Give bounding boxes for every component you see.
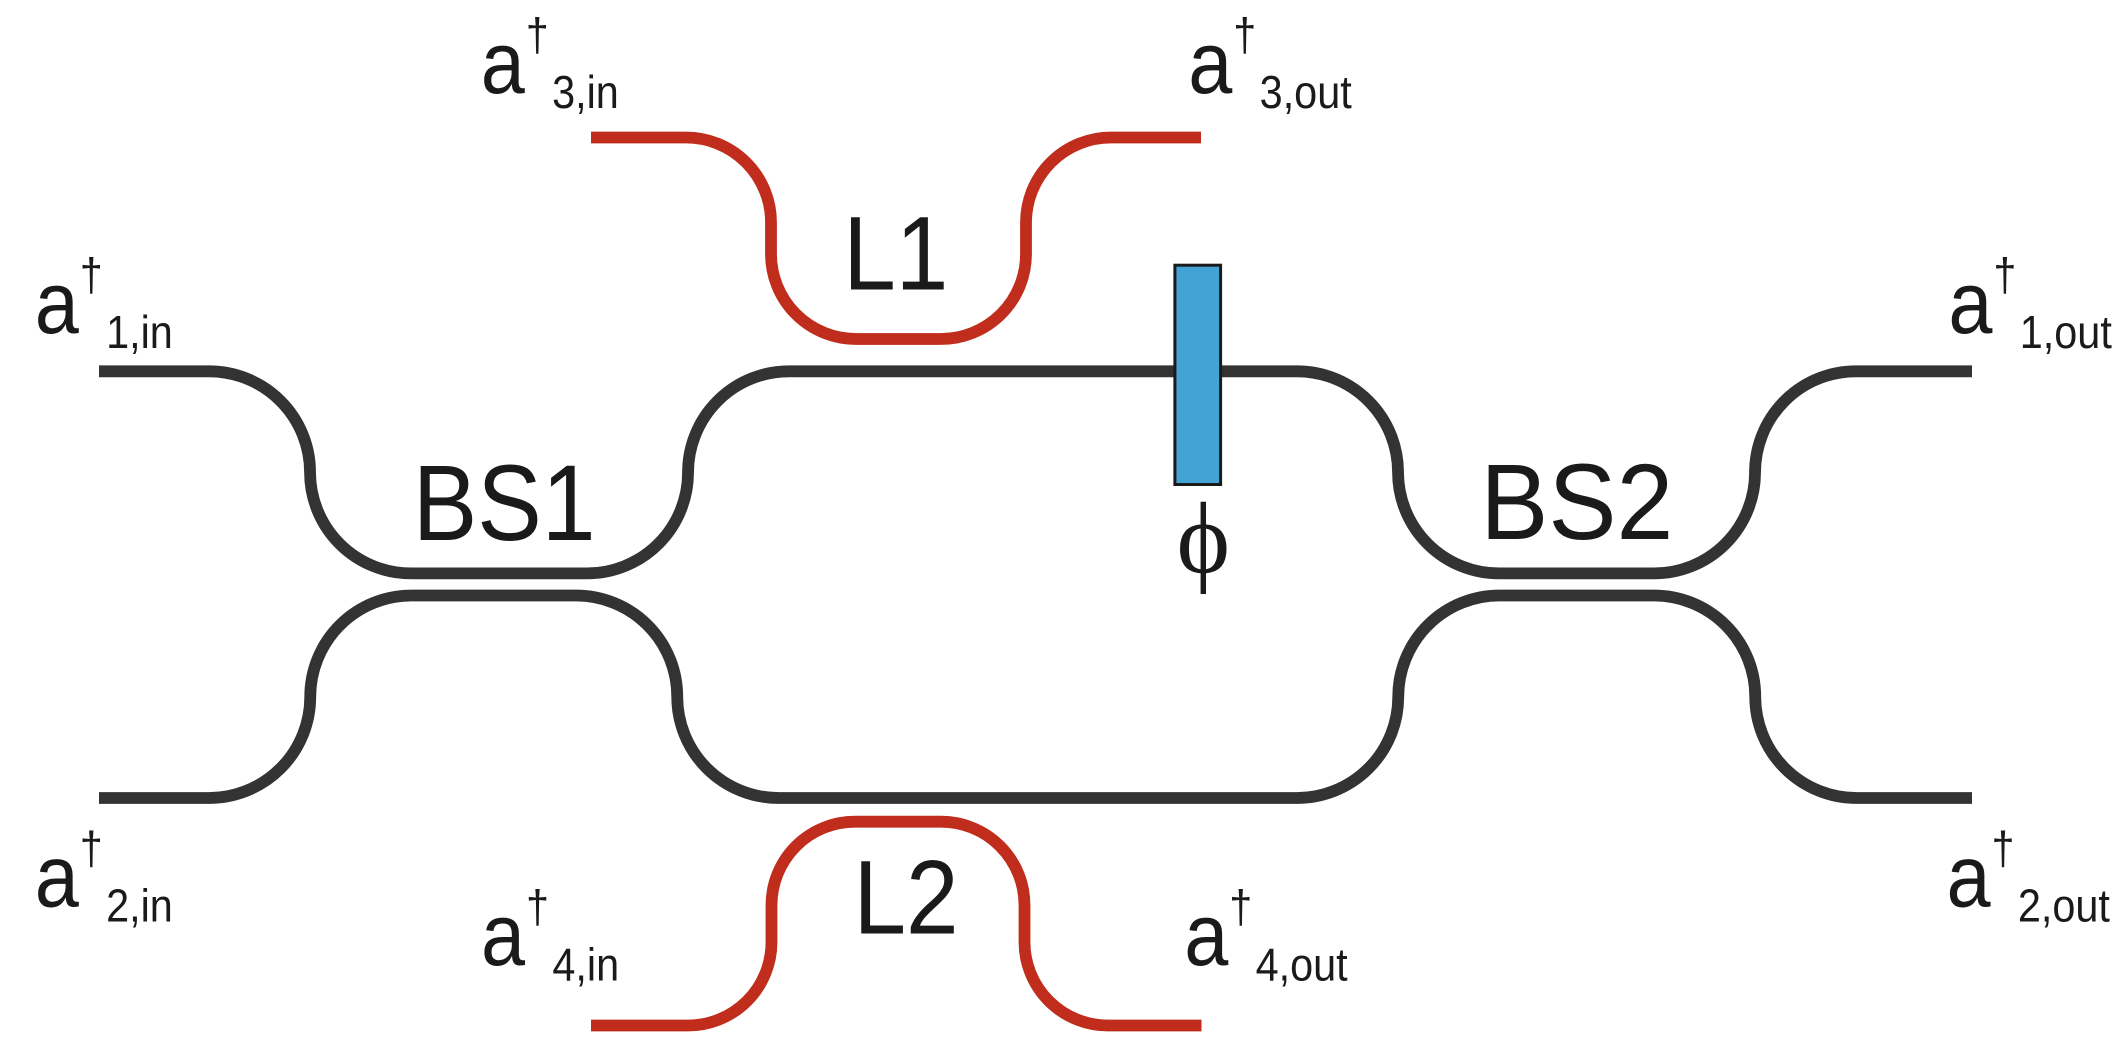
svg-text:†: † — [80, 250, 103, 302]
svg-text:3,out: 3,out — [1260, 67, 1352, 119]
svg-text:1,out: 1,out — [2020, 307, 2112, 359]
svg-text:†: † — [526, 10, 549, 62]
svg-text:†: † — [1233, 10, 1256, 62]
svg-text:†: † — [1229, 882, 1252, 934]
waveguide mode 2 (bottom arm through BS1, BS2) — [99, 596, 1972, 799]
svg-text:4,in: 4,in — [552, 939, 619, 991]
svg-text:2,in: 2,in — [106, 881, 173, 933]
svg-text:a: a — [1188, 13, 1232, 112]
svg-text:L1: L1 — [843, 196, 948, 313]
port label a†3,in — [481, 10, 619, 119]
svg-text:ϕ: ϕ — [1177, 482, 1230, 594]
svg-text:†: † — [1993, 250, 2016, 302]
waveguide mode 1 (top arm through BS1, phase shifter, BS2) — [99, 371, 1972, 573]
port label a†1,out — [1948, 250, 2111, 359]
svg-text:a: a — [35, 253, 79, 352]
svg-text:a: a — [1947, 826, 1991, 925]
svg-text:†: † — [80, 823, 103, 875]
svg-text:†: † — [526, 882, 549, 934]
port label a†2,out — [1947, 823, 2110, 932]
port label a†3,out — [1188, 10, 1351, 119]
svg-text:a: a — [1184, 885, 1228, 984]
svg-text:a: a — [1948, 253, 1992, 352]
label L1 — [843, 196, 948, 313]
svg-text:a: a — [35, 826, 79, 925]
svg-text:L2: L2 — [854, 840, 959, 957]
label BS2 — [1480, 443, 1673, 563]
svg-text:4,out: 4,out — [1256, 939, 1348, 991]
svg-text:BS1: BS1 — [413, 442, 596, 563]
label L2 — [854, 840, 959, 957]
phase shifter (blue rectangle) — [1175, 265, 1221, 484]
svg-text:a: a — [481, 13, 525, 112]
label BS1 — [413, 442, 596, 563]
port label a†1,in — [35, 250, 173, 359]
svg-text:2,out: 2,out — [2018, 881, 2110, 933]
svg-text:3,in: 3,in — [552, 67, 619, 119]
port label a†4,out — [1184, 882, 1347, 991]
loss channel L1 (red waveguide, mode 3) — [591, 138, 1201, 340]
loss channel L2 (red waveguide, mode 4) — [591, 822, 1202, 1026]
svg-text:1,in: 1,in — [106, 307, 173, 359]
svg-text:BS2: BS2 — [1480, 443, 1673, 563]
svg-text:a: a — [481, 885, 525, 984]
svg-text:†: † — [1992, 823, 2015, 875]
port label a†2,in — [35, 823, 173, 932]
port label a†4,in — [481, 882, 619, 991]
